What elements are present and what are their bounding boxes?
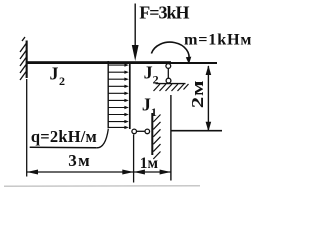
svg-text:J2: J2 — [50, 63, 66, 88]
svg-text:2м: 2м — [189, 80, 208, 108]
svg-text:J1: J1 — [142, 94, 157, 119]
svg-text:J2: J2 — [144, 62, 159, 86]
svg-text:m=1kHм: m=1kHм — [184, 31, 252, 49]
svg-text:F=3kH: F=3kH — [139, 3, 189, 23]
svg-text:q=2kH/м: q=2kH/м — [31, 127, 97, 146]
svg-text:3м: 3м — [68, 151, 91, 170]
svg-text:1м: 1м — [140, 155, 159, 172]
